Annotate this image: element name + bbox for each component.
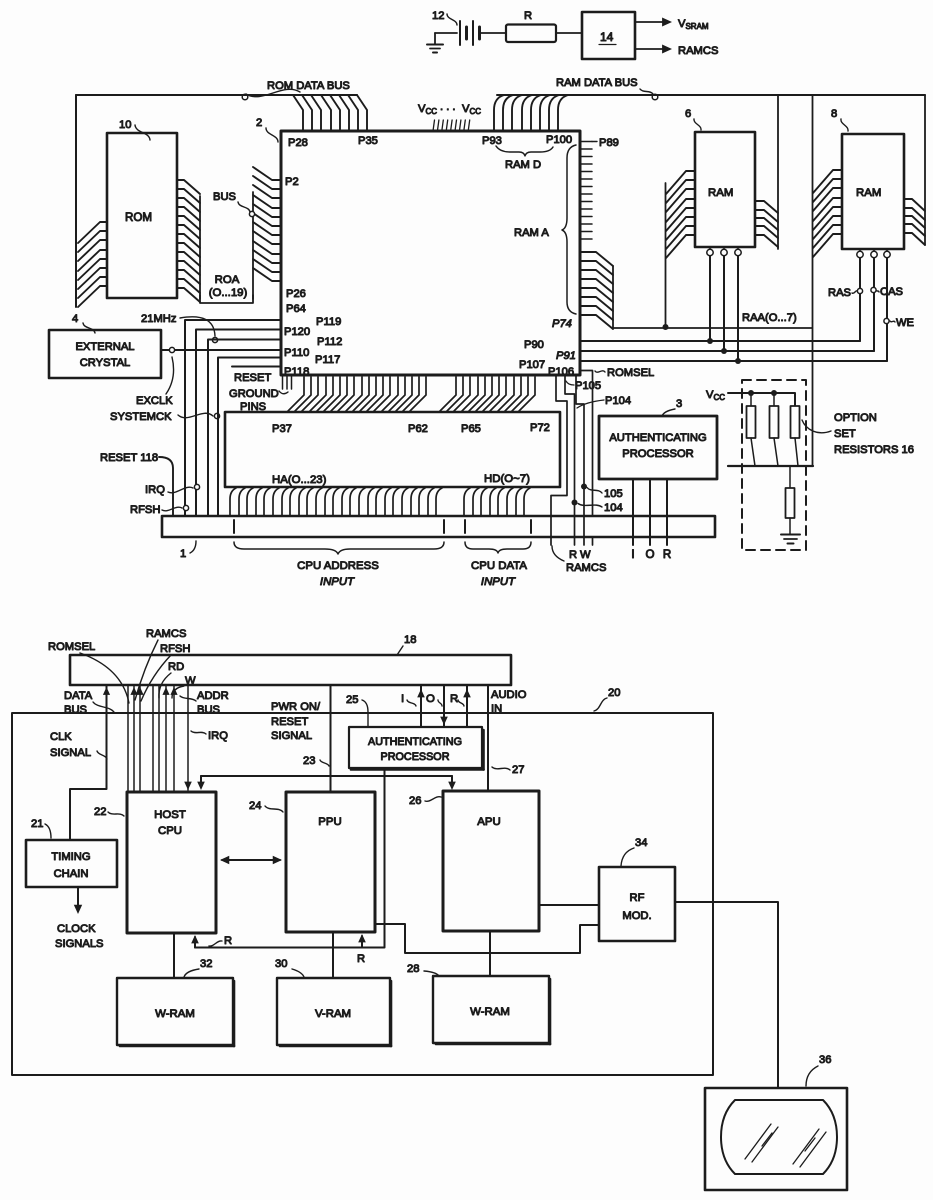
svg-text:25: 25 bbox=[346, 694, 358, 706]
label I fig2 bbox=[401, 693, 416, 706]
RAM 8 bbox=[842, 134, 904, 249]
label 2 bbox=[256, 117, 278, 142]
CPU 2 bbox=[281, 131, 580, 375]
label 10 bbox=[119, 119, 150, 140]
svg-text:P26: P26 bbox=[286, 288, 306, 300]
wire R fig2 bbox=[463, 685, 471, 727]
ROM 10 bbox=[107, 133, 177, 298]
label GROUND PINS bbox=[229, 388, 288, 413]
svg-text:MOD.: MOD. bbox=[622, 910, 651, 922]
svg-text:AUTHENTICATING: AUTHENTICATING bbox=[368, 736, 462, 748]
svg-text:(O...19): (O...19) bbox=[209, 287, 248, 299]
RAM 6 right data fan bbox=[755, 95, 778, 249]
svg-text:6: 6 bbox=[685, 108, 691, 120]
wire RAS bbox=[859, 258, 861, 341]
label RFSH fig2 bbox=[141, 643, 190, 701]
arrow cpu-ppu bbox=[220, 856, 282, 864]
svg-text:18: 18 bbox=[404, 634, 416, 646]
wire P90 bbox=[581, 340, 860, 342]
label 22 bbox=[94, 806, 124, 818]
svg-text:RAM D: RAM D bbox=[505, 159, 541, 171]
svg-text:P105: P105 bbox=[575, 380, 601, 392]
label RAS bbox=[828, 287, 863, 299]
svg-text:IN: IN bbox=[491, 703, 502, 715]
svg-text:CLK: CLK bbox=[50, 731, 72, 743]
svg-text:BUS: BUS bbox=[197, 704, 220, 716]
label RAM DATA BUS bbox=[556, 77, 658, 100]
connector ticks bbox=[234, 520, 531, 533]
svg-text:27: 27 bbox=[512, 764, 524, 776]
wire R bbox=[663, 479, 671, 561]
svg-text:SET: SET bbox=[834, 428, 856, 440]
wire rom data bus bbox=[76, 94, 357, 96]
svg-text:HD(O~7): HD(O~7) bbox=[484, 473, 530, 485]
label RD bbox=[159, 661, 184, 698]
wire RF out bbox=[675, 902, 778, 1088]
svg-text:DATA: DATA bbox=[64, 690, 93, 702]
RAM 8 right data fan bbox=[904, 95, 925, 245]
arrow IRQ bbox=[184, 782, 192, 790]
svg-text:RAS: RAS bbox=[828, 287, 851, 299]
svg-text:TIMING: TIMING bbox=[51, 851, 90, 863]
wire bbox=[75, 95, 77, 307]
svg-text:28: 28 bbox=[407, 963, 419, 975]
resistor r2 bbox=[770, 393, 779, 466]
label 12 bbox=[432, 10, 457, 25]
wire RAM6 pin2 bbox=[721, 256, 727, 354]
svg-text:2: 2 bbox=[256, 117, 262, 129]
svg-text:V-RAM: V-RAM bbox=[315, 1008, 351, 1020]
svg-text:ROMSEL: ROMSEL bbox=[607, 367, 654, 379]
svg-text:HOST: HOST bbox=[154, 809, 186, 821]
wire crystal EXCLK bbox=[161, 347, 281, 352]
wire R reset bbox=[191, 934, 384, 948]
label 24 bbox=[249, 800, 283, 812]
svg-text:104: 104 bbox=[604, 502, 623, 514]
label O fig2 bbox=[426, 693, 442, 706]
battery 12 bbox=[460, 21, 480, 45]
svg-text:ROMSEL: ROMSEL bbox=[48, 641, 95, 653]
AUTHENTICATING PROCESSOR 25 bbox=[349, 727, 484, 770]
resistor r1 bbox=[747, 393, 756, 466]
wire O bbox=[645, 479, 654, 561]
svg-text:RAMCS: RAMCS bbox=[146, 628, 186, 640]
CPU pin labels top bbox=[285, 134, 572, 188]
wire P120 bbox=[196, 330, 281, 517]
wire O fig2 bbox=[440, 685, 448, 727]
hatch pin box to connector group2 bbox=[464, 488, 530, 516]
label 21 bbox=[31, 818, 51, 838]
svg-text:14: 14 bbox=[600, 30, 614, 44]
label 21MHz bbox=[141, 313, 218, 343]
wire RAA bus bbox=[613, 312, 812, 328]
wire RAM6 pin1 bbox=[707, 256, 713, 344]
wire bbox=[481, 32, 506, 34]
svg-text:BUS: BUS bbox=[64, 704, 87, 716]
svg-text:P65: P65 bbox=[461, 423, 481, 435]
svg-text:24: 24 bbox=[249, 800, 261, 812]
ROA trough bbox=[200, 295, 253, 303]
label SYSTEMCK bbox=[110, 411, 220, 423]
svg-text:RESET: RESET bbox=[234, 372, 271, 384]
ROM left bus fan bbox=[78, 222, 107, 307]
svg-text:P110: P110 bbox=[284, 347, 309, 359]
svg-text:RESISTORS 16: RESISTORS 16 bbox=[834, 444, 914, 456]
bus bar 18 bbox=[70, 655, 511, 685]
resistor R bbox=[506, 10, 556, 42]
wire hostcpu wram bbox=[173, 933, 175, 978]
svg-text:SIGNALS: SIGNALS bbox=[55, 938, 104, 950]
wire RESET118 bbox=[159, 457, 173, 516]
hatch pin box to connector group1 bbox=[230, 488, 442, 516]
svg-text:PROCESSOR: PROCESSOR bbox=[622, 448, 694, 460]
label AUDIO IN bbox=[491, 689, 527, 715]
label RESET 118 bbox=[100, 452, 158, 464]
label 36 bbox=[806, 1054, 831, 1086]
svg-text:R: R bbox=[524, 10, 532, 22]
CPU right edge pins bbox=[581, 142, 592, 240]
label RFSH bbox=[130, 504, 189, 516]
box 14 bbox=[582, 12, 635, 59]
svg-text:RAA(O...7): RAA(O...7) bbox=[742, 312, 797, 324]
label WE bbox=[884, 317, 914, 329]
svg-text:1: 1 bbox=[180, 548, 186, 560]
label DATA BUS bbox=[64, 690, 114, 716]
svg-text:AUTHENTICATING: AUTHENTICATING bbox=[609, 432, 706, 444]
label RAMCS fig1 bbox=[552, 546, 606, 574]
label 3 bbox=[662, 398, 682, 416]
brace CPU ADDRESS bbox=[234, 542, 444, 588]
wire RAM6 pin3 bbox=[735, 256, 741, 364]
hatch CPU to pin box group2 bbox=[440, 377, 535, 411]
svg-text:R: R bbox=[357, 953, 365, 965]
wire APU to RFMOD bbox=[539, 904, 599, 906]
label 25 bbox=[346, 694, 368, 727]
RAM A fan to RAA bus bbox=[581, 252, 613, 329]
svg-text:36: 36 bbox=[819, 1054, 831, 1066]
svg-text:P117: P117 bbox=[315, 354, 340, 366]
wire audio bbox=[487, 685, 489, 791]
TV 36 bbox=[705, 1088, 847, 1190]
pin box labels bbox=[272, 422, 550, 486]
svg-text:W-RAM: W-RAM bbox=[155, 1008, 195, 1020]
svg-text:O: O bbox=[645, 548, 654, 561]
svg-text:I: I bbox=[631, 548, 634, 561]
svg-text:CPU ADDRESS: CPU ADDRESS bbox=[297, 560, 379, 572]
svg-text:P89: P89 bbox=[599, 137, 619, 149]
wire vcc bbox=[728, 390, 795, 406]
svg-text:RFSH: RFSH bbox=[160, 643, 190, 655]
svg-text:P107: P107 bbox=[519, 359, 545, 371]
svg-text:ROM DATA BUS: ROM DATA BUS bbox=[267, 80, 350, 92]
svg-text:RAM A: RAM A bbox=[514, 227, 549, 239]
svg-text:SIGNAL: SIGNAL bbox=[271, 730, 312, 742]
svg-text:EXCLK: EXCLK bbox=[136, 395, 173, 407]
label IRQ bbox=[145, 484, 200, 496]
label 8 bbox=[831, 108, 848, 131]
wire apu wram bbox=[489, 931, 491, 976]
svg-text:P74: P74 bbox=[552, 318, 572, 330]
label R fig2 bbox=[450, 693, 464, 706]
svg-text:P62: P62 bbox=[408, 423, 428, 435]
svg-text:21MHz: 21MHz bbox=[141, 313, 177, 325]
edge connector 1 bbox=[162, 516, 715, 537]
label P105 bbox=[566, 380, 601, 392]
svg-text:CAS: CAS bbox=[880, 286, 903, 298]
CPU ground pins bbox=[283, 376, 292, 389]
W-RAM 32 bbox=[117, 978, 234, 1046]
svg-text:P100: P100 bbox=[546, 134, 572, 146]
label 18 bbox=[397, 634, 416, 655]
V-RAM 30 bbox=[277, 978, 391, 1046]
svg-text:32: 32 bbox=[200, 958, 212, 970]
bus lines bar to host cpu bbox=[128, 685, 188, 792]
label 105 bbox=[587, 488, 623, 501]
label IRQ fig2 bbox=[191, 730, 228, 742]
wire AP to APU bbox=[197, 776, 456, 790]
svg-text:P90: P90 bbox=[524, 339, 544, 351]
svg-text:23: 23 bbox=[303, 755, 315, 767]
wire I fig2 bbox=[417, 685, 425, 727]
bus fan to CPU P28-P35 bbox=[293, 95, 367, 131]
svg-text:4: 4 bbox=[72, 313, 78, 325]
label EXCLK bbox=[136, 357, 174, 407]
label ROMSEL fig2 bbox=[48, 641, 129, 703]
CRT glare bbox=[745, 1124, 826, 1167]
svg-text:RF: RF bbox=[630, 892, 645, 904]
svg-text:INPUT: INPUT bbox=[320, 576, 355, 588]
label 30 bbox=[275, 958, 304, 977]
svg-text:P120: P120 bbox=[284, 326, 310, 338]
label R host bbox=[209, 935, 232, 947]
RAM 6 left address fan bbox=[663, 171, 696, 330]
svg-text:ADDR: ADDR bbox=[197, 690, 229, 702]
label Vcc bbox=[706, 389, 725, 402]
svg-text:30: 30 bbox=[275, 958, 287, 970]
RAM D brace bbox=[496, 146, 553, 171]
label W bbox=[172, 675, 196, 698]
label 26 bbox=[409, 795, 441, 807]
svg-text:BUS: BUS bbox=[213, 191, 236, 203]
wire I bbox=[631, 479, 634, 561]
svg-text:3: 3 bbox=[676, 398, 682, 410]
ground bbox=[427, 33, 443, 53]
svg-text:RAM DATA BUS: RAM DATA BUS bbox=[556, 77, 638, 89]
svg-text:CHAIN: CHAIN bbox=[54, 868, 89, 880]
svg-text:R: R bbox=[224, 935, 232, 947]
label ROM DATA BUS bbox=[242, 80, 350, 100]
wire P117 bbox=[218, 358, 281, 517]
svg-text:O: O bbox=[426, 693, 435, 705]
svg-text:I: I bbox=[401, 693, 404, 705]
wire W line bbox=[576, 375, 587, 545]
hatch CPU to pin box group1 bbox=[288, 377, 426, 411]
svg-text:AUDIO: AUDIO bbox=[491, 689, 527, 701]
svg-text:ROA: ROA bbox=[215, 274, 240, 286]
ground option bbox=[781, 535, 800, 544]
svg-text:P118: P118 bbox=[284, 366, 309, 378]
label P104 bbox=[577, 395, 631, 408]
wire PPU video bbox=[375, 924, 599, 953]
svg-text:P119: P119 bbox=[316, 316, 341, 328]
label R ppu bbox=[357, 953, 365, 965]
svg-text:OPTION: OPTION bbox=[834, 412, 877, 424]
label CLK SIGNAL bbox=[50, 731, 107, 759]
svg-text:34: 34 bbox=[635, 837, 647, 849]
label RW bbox=[569, 549, 591, 561]
svg-text:W: W bbox=[185, 675, 196, 687]
wire bbox=[556, 32, 582, 34]
svg-text:P104: P104 bbox=[605, 395, 631, 407]
RAM 6 bbox=[695, 132, 755, 247]
svg-text:WE: WE bbox=[896, 317, 914, 329]
label 20 bbox=[594, 687, 620, 711]
svg-text:R: R bbox=[450, 693, 458, 705]
svg-text:SIGNAL: SIGNAL bbox=[50, 747, 91, 759]
Vcc pins label bbox=[418, 101, 481, 116]
pin box HA HD bbox=[225, 412, 560, 487]
svg-text:EXTERNAL: EXTERNAL bbox=[75, 341, 134, 353]
svg-text:P35: P35 bbox=[358, 135, 378, 147]
wire ppu vram bbox=[332, 932, 334, 978]
svg-text:20: 20 bbox=[608, 687, 620, 699]
svg-text:. . .: . . . bbox=[440, 101, 456, 113]
svg-text:R: R bbox=[569, 549, 577, 561]
wire V_SRAM bbox=[635, 18, 709, 32]
svg-text:CPU: CPU bbox=[158, 825, 182, 837]
svg-text:P93: P93 bbox=[482, 135, 502, 147]
label PWR ON RESET SIGNAL bbox=[271, 701, 321, 742]
label 28 bbox=[407, 963, 439, 976]
svg-text:R: R bbox=[663, 548, 671, 561]
label 32 bbox=[184, 958, 212, 977]
svg-text:RAM: RAM bbox=[708, 187, 733, 199]
wire ram data bus bbox=[497, 94, 925, 96]
label ROA (0...19) bbox=[209, 274, 248, 299]
wire RAMCS bbox=[551, 375, 567, 545]
wire P118 RESET bbox=[232, 367, 281, 385]
CPU left bus fan (BUS) bbox=[253, 167, 281, 299]
wire CLK bbox=[70, 685, 110, 840]
svg-text:ROM: ROM bbox=[125, 211, 152, 224]
wire P112 bbox=[208, 340, 281, 517]
label P89 bbox=[592, 137, 619, 149]
svg-text:P72: P72 bbox=[530, 422, 550, 434]
wire option bottom bbox=[728, 465, 813, 467]
svg-text:P2: P2 bbox=[285, 176, 299, 188]
svg-text:P64: P64 bbox=[286, 303, 306, 315]
label 6 bbox=[685, 108, 701, 130]
svg-text:IRQ: IRQ bbox=[208, 730, 228, 742]
option set box bbox=[742, 380, 806, 550]
RAM A brace bbox=[514, 145, 576, 314]
AUTHENTICATING PROCESSOR 3 bbox=[599, 416, 717, 479]
Vcc pin ticks bbox=[433, 120, 470, 131]
svg-text:HA(O...23): HA(O...23) bbox=[272, 474, 327, 486]
svg-text:CLOCK: CLOCK bbox=[57, 923, 96, 935]
label ROMSEL bbox=[595, 367, 654, 379]
wire AP down bbox=[384, 768, 386, 947]
svg-text:RESET 118: RESET 118 bbox=[100, 452, 158, 464]
RF MOD 34 bbox=[599, 867, 675, 941]
PPU 24 bbox=[286, 792, 375, 932]
svg-text:12: 12 bbox=[432, 10, 444, 22]
wire P119 bbox=[185, 320, 281, 516]
svg-text:RESET: RESET bbox=[271, 716, 308, 728]
svg-text:10: 10 bbox=[119, 119, 131, 131]
svg-text:26: 26 bbox=[409, 795, 421, 807]
label 23 bbox=[303, 755, 329, 767]
HOST CPU 22 bbox=[127, 792, 216, 933]
label OPTION SET RESISTORS 16 bbox=[802, 412, 914, 456]
wire P91 bbox=[581, 350, 874, 352]
svg-text:GROUND: GROUND bbox=[229, 388, 279, 400]
RAM 8 left data fan bbox=[813, 95, 843, 466]
W-RAM 28 bbox=[433, 976, 550, 1044]
brace CPU DATA bbox=[465, 542, 531, 588]
svg-text:21: 21 bbox=[31, 818, 43, 830]
svg-text:SYSTEMCK: SYSTEMCK bbox=[110, 411, 172, 423]
svg-text:W-RAM: W-RAM bbox=[470, 1006, 510, 1018]
wire WE bbox=[886, 258, 888, 361]
svg-text:22: 22 bbox=[94, 806, 106, 818]
svg-text:PROCESSOR: PROCESSOR bbox=[381, 751, 450, 763]
arrowheads up bbox=[130, 687, 177, 695]
svg-text:CPU DATA: CPU DATA bbox=[471, 560, 527, 572]
svg-text:APU: APU bbox=[477, 816, 500, 828]
label 27 bbox=[492, 764, 524, 776]
label 104 bbox=[578, 502, 623, 514]
CRT screen bbox=[721, 1100, 837, 1174]
svg-text:IRQ: IRQ bbox=[145, 484, 165, 496]
svg-text:RAMCS: RAMCS bbox=[566, 562, 606, 574]
TIMING CHAIN 21 bbox=[26, 840, 117, 887]
resistor r4 bbox=[786, 466, 795, 534]
svg-text:105: 105 bbox=[604, 488, 623, 500]
svg-text:CRYSTAL: CRYSTAL bbox=[80, 357, 131, 369]
svg-text:P37: P37 bbox=[272, 423, 292, 435]
resistor r3 bbox=[791, 406, 800, 466]
system box 20 bbox=[12, 713, 713, 1075]
wire clock signals bbox=[74, 887, 82, 914]
svg-text:PPU: PPU bbox=[318, 816, 341, 828]
APU 26 bbox=[443, 791, 539, 931]
ROM right bus ROA bbox=[177, 180, 200, 302]
CPU pin labels left-bottom bbox=[284, 288, 342, 378]
svg-text:PWR ON/: PWR ON/ bbox=[271, 701, 321, 713]
bus fan CPU P93-P100 to RAM DATA BUS bbox=[494, 95, 568, 131]
label 1 bbox=[180, 541, 196, 560]
svg-text:RAM: RAM bbox=[856, 187, 881, 199]
label CAS bbox=[871, 286, 903, 298]
label CLOCK SIGNALS bbox=[55, 923, 104, 950]
wire bbox=[435, 32, 457, 34]
EXTERNAL CRYSTAL 4 bbox=[49, 330, 161, 378]
label 4 bbox=[72, 313, 95, 333]
svg-text:INPUT: INPUT bbox=[481, 576, 516, 588]
svg-text:P106: P106 bbox=[548, 366, 574, 378]
label BUS bbox=[213, 191, 255, 217]
wire R line bbox=[565, 375, 578, 545]
wire 23 bbox=[330, 685, 332, 791]
svg-text:RD: RD bbox=[168, 661, 184, 673]
wire ROMSEL pin bbox=[581, 371, 593, 546]
svg-text:8: 8 bbox=[831, 108, 837, 120]
svg-text:RFSH: RFSH bbox=[130, 504, 160, 516]
CPU pin labels right-bottom bbox=[519, 318, 576, 378]
label RAMCS fig2 bbox=[135, 628, 186, 700]
svg-text:P28: P28 bbox=[288, 137, 308, 149]
